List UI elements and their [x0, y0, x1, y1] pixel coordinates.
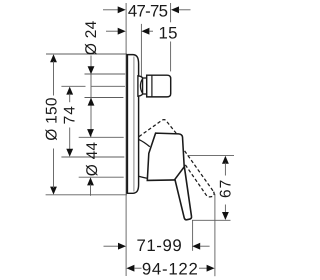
dimension 74	[62, 87, 79, 157]
dimension 47-75	[103, 1, 191, 20]
dimension 15	[106, 23, 178, 42]
escutcheon plate	[127, 54, 138, 194]
dashed raised handle silhouette	[139, 120, 214, 197]
node dashed tip extension x=214.9	[214, 194, 216, 276]
handle neck lines	[138, 139, 150, 178]
stem ring	[143, 78, 147, 94]
node stem-end extension line x=170.6	[170, 3, 172, 71]
dimension 94-122	[126, 260, 214, 279]
svg-text:Ø 44: Ø 44	[84, 142, 101, 177]
handle hub	[147, 133, 185, 180]
stem flange spool	[138, 76, 143, 96]
handle lever	[175, 167, 192, 220]
dimension D150 vertical	[43, 54, 127, 195]
wire wall extension line	[125, 3, 127, 276]
svg-text:94-122: 94-122	[142, 260, 199, 279]
node sleeve extension line x=141.4	[140, 24, 142, 77]
svg-text:71-99: 71-99	[136, 236, 182, 255]
dimension D44	[79, 129, 124, 196]
svg-text:15: 15	[159, 23, 178, 42]
svg-text:67: 67	[218, 179, 235, 198]
dimension D24 label and arrows	[83, 20, 125, 136]
svg-text:74: 74	[62, 105, 79, 124]
node lever tip extension x=192.6	[192, 220, 194, 251]
svg-text:Ø 150: Ø 150	[43, 97, 60, 141]
dimension 67	[188, 155, 235, 220]
stop knob	[147, 75, 171, 97]
svg-text:47-75: 47-75	[128, 1, 168, 20]
svg-text:Ø 24: Ø 24	[83, 20, 100, 55]
dimension 71-99	[104, 236, 210, 255]
node handle axis line	[61, 156, 124, 158]
node stem axis line	[61, 85, 125, 87]
